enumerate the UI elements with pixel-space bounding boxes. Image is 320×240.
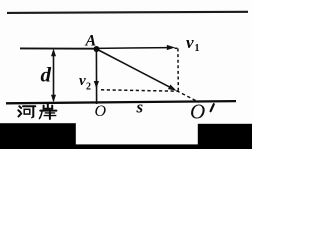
svg-text:1: 1 <box>195 43 200 54</box>
svg-text:A: A <box>85 33 97 50</box>
svg-text:d: d <box>41 63 52 87</box>
svg-text:O: O <box>95 103 107 120</box>
svg-text:v: v <box>186 33 194 52</box>
svg-text:O: O <box>190 100 205 124</box>
svg-text:2: 2 <box>86 82 91 93</box>
svg-text:v: v <box>79 73 86 89</box>
svg-text:s: s <box>136 98 144 117</box>
